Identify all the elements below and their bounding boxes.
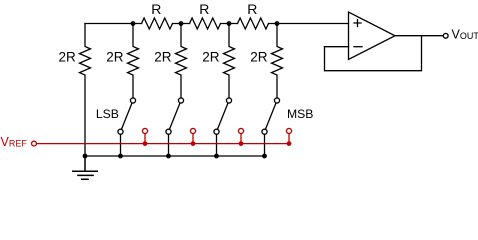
svg-text:2R: 2R xyxy=(59,49,77,64)
wire top rail segment 4 (node D to op-amp + input) xyxy=(269,23,349,25)
resistor R3 (R, horizontal) xyxy=(238,18,269,29)
switch S2 ground throw terminal xyxy=(166,129,171,134)
node D junction dot xyxy=(275,21,280,26)
junction dot VREF-S1 xyxy=(143,141,148,146)
op-amp U1 triangle xyxy=(349,12,396,60)
svg-text:2R: 2R xyxy=(202,49,220,64)
node B junction dot xyxy=(179,21,184,26)
svg-text:2R: 2R xyxy=(154,49,172,64)
switch S1 arm (LSB) xyxy=(121,101,134,132)
wire S1 red throw stub xyxy=(144,131,146,144)
resistor R2 (R, horizontal) xyxy=(190,18,221,29)
switch S4 common terminal xyxy=(274,98,279,103)
switch S2 pole wire to ground bus xyxy=(168,132,170,156)
resistor R4 (2R, vertical, leftmost) xyxy=(80,24,91,157)
terminal VOUT (open circle) xyxy=(443,33,448,38)
wire top rail segment 3 (R2 to R3) xyxy=(221,23,238,25)
svg-text:LSB: LSB xyxy=(96,107,119,121)
switch S4 ground throw terminal xyxy=(262,129,267,134)
switch S4 arm (MSB) xyxy=(265,101,278,132)
node C junction dot xyxy=(227,21,232,26)
wire S4 red throw stub xyxy=(288,131,290,144)
svg-text:VREF: VREF xyxy=(1,135,28,149)
wire op-amp inverting input xyxy=(325,46,349,48)
switch S1 pole wire to ground bus xyxy=(120,132,122,156)
switch S4 pole wire to ground bus xyxy=(264,132,266,156)
svg-text:MSB: MSB xyxy=(287,107,313,121)
junction dot VREF-S4 xyxy=(287,141,292,146)
resistor R6 (2R, vertical, bit 1) xyxy=(176,24,187,99)
wire S3 red throw stub xyxy=(240,131,242,144)
resistor R1 (R, horizontal) xyxy=(142,18,173,29)
wire feedback loop xyxy=(325,36,422,71)
junction dot S3 on bus xyxy=(214,154,219,159)
ground xyxy=(72,156,98,179)
wire S2 red throw stub xyxy=(192,131,194,144)
junction dot VREF-S2 xyxy=(191,141,196,146)
resistor R7 (2R, vertical, bit 2) xyxy=(224,24,235,99)
svg-text:R: R xyxy=(247,1,257,17)
op-amp U1 minus symbol xyxy=(354,46,362,48)
switch S1 ground throw terminal xyxy=(118,129,123,134)
wire top rail segment 2 (R1 to R2) xyxy=(173,23,190,25)
junction dot S2 on bus xyxy=(166,154,171,159)
switch S2 VREF throw terminal (red) xyxy=(190,128,195,133)
switch S1 VREF throw terminal (red) xyxy=(142,128,147,133)
junction dot S4 on bus xyxy=(262,154,267,159)
svg-text:VOUT: VOUT xyxy=(452,28,478,42)
op-amp U1 plus symbol xyxy=(354,20,361,27)
junction dot ground bus left xyxy=(83,154,88,159)
svg-text:R: R xyxy=(151,1,161,17)
switch S3 VREF throw terminal (red) xyxy=(238,128,243,133)
wire ground bus xyxy=(85,155,265,157)
resistor R8 (2R, vertical, bit 3 MSB) xyxy=(272,24,283,99)
switch S2 common terminal xyxy=(178,98,183,103)
wire VREF rail (red) xyxy=(37,143,289,145)
switch S3 pole wire to ground bus xyxy=(216,132,218,156)
wire op-amp output xyxy=(395,35,443,37)
svg-text:2R: 2R xyxy=(250,49,268,64)
switch S1 common terminal xyxy=(130,98,135,103)
switch S3 common terminal xyxy=(226,98,231,103)
switch S4 VREF throw terminal (red) xyxy=(286,128,291,133)
node A junction dot xyxy=(131,21,136,26)
resistor R5 (2R, vertical, bit 0) xyxy=(128,24,139,99)
junction dot VREF-S3 xyxy=(239,141,244,146)
wire top rail segment 1 (node A to R1) xyxy=(85,23,142,25)
svg-text:R: R xyxy=(199,1,209,17)
svg-text:2R: 2R xyxy=(106,49,124,64)
switch S3 arm xyxy=(217,101,230,132)
switch S2 arm xyxy=(169,101,182,132)
junction dot S1 on bus xyxy=(118,154,123,159)
terminal VREF (red open circle) xyxy=(32,141,37,146)
switch S3 ground throw terminal xyxy=(214,129,219,134)
